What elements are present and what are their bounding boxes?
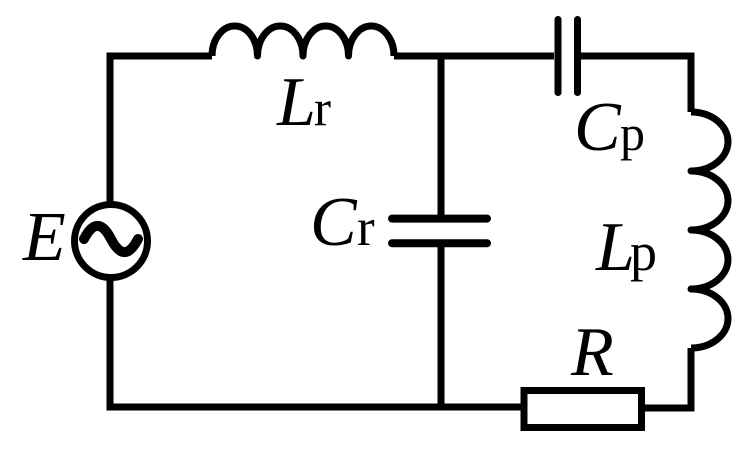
wire: top rail from Lr to Cp <box>394 53 554 60</box>
capacitor Cp <box>558 20 578 93</box>
resistor R <box>524 391 642 428</box>
wire: top-right horizontal from Cp and right vertical down to Lp <box>581 56 691 112</box>
wire: middle vertical from top rail to Cr <box>438 56 445 215</box>
label Cr <box>310 184 375 261</box>
wire: middle vertical from Cr to bottom rail <box>438 247 445 407</box>
svg-text:p: p <box>630 222 657 282</box>
svg-text:E: E <box>22 199 66 276</box>
wire: left vertical (source top to top rail) and top-left horizontal <box>110 56 212 205</box>
label Lp <box>595 209 657 286</box>
svg-text:C: C <box>310 184 358 261</box>
source E (AC) <box>75 205 148 278</box>
svg-text:L: L <box>595 209 635 286</box>
capacitor Cr <box>392 219 487 244</box>
label Cp <box>574 89 645 166</box>
svg-text:C: C <box>574 89 622 166</box>
wire: bottom rail from resistor to source, left vertical bottom <box>110 277 521 407</box>
svg-text:p: p <box>620 105 645 161</box>
svg-text:R: R <box>570 314 614 391</box>
inductor Lr <box>212 26 394 56</box>
label Lr <box>276 64 331 141</box>
wire: right vertical from Lp down and stub to resistor R <box>645 348 691 408</box>
inductor Lp <box>691 112 728 348</box>
svg-text:L: L <box>276 64 316 141</box>
svg-text:r: r <box>314 81 331 137</box>
svg-text:r: r <box>357 199 375 257</box>
